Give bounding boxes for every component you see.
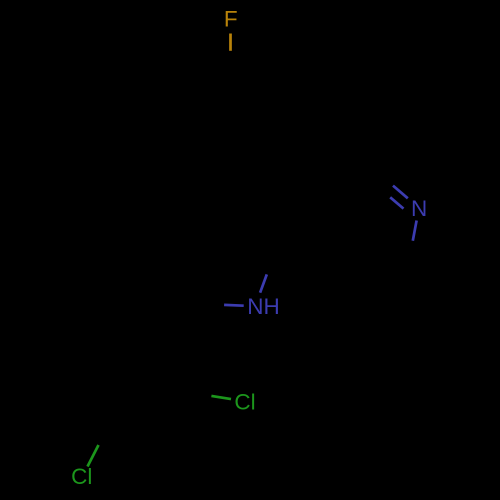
svg-text:NH: NH: [247, 294, 279, 319]
svg-text:F: F: [224, 7, 238, 32]
svg-text:N: N: [411, 196, 427, 221]
svg-text:Cl: Cl: [234, 389, 255, 414]
svg-text:Cl: Cl: [71, 464, 92, 489]
